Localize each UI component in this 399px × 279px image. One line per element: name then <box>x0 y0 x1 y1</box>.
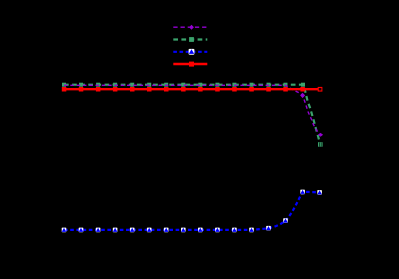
green series line (dashed, flat then steep drop at right) <box>64 85 320 145</box>
green end marker <box>318 142 323 147</box>
legend: purple entry <box>173 25 207 30</box>
purple diamond marker mid-curve <box>300 93 305 98</box>
purple diamond end marker <box>318 133 323 137</box>
green square markers (flat part) <box>62 83 305 87</box>
blue markers: white square + blue triangle <box>62 190 322 233</box>
red end marker with dark centre <box>318 87 323 92</box>
blue series line (dashed, flat then rise at right) <box>64 192 320 230</box>
red square markers <box>62 87 305 92</box>
legend: green entry <box>173 37 207 42</box>
purple series line (thin dashed, flat then curve down) <box>64 85 321 135</box>
legend: red entry <box>173 62 207 67</box>
legend: blue entry <box>173 49 207 55</box>
red series line (solid, flat) <box>63 88 318 90</box>
